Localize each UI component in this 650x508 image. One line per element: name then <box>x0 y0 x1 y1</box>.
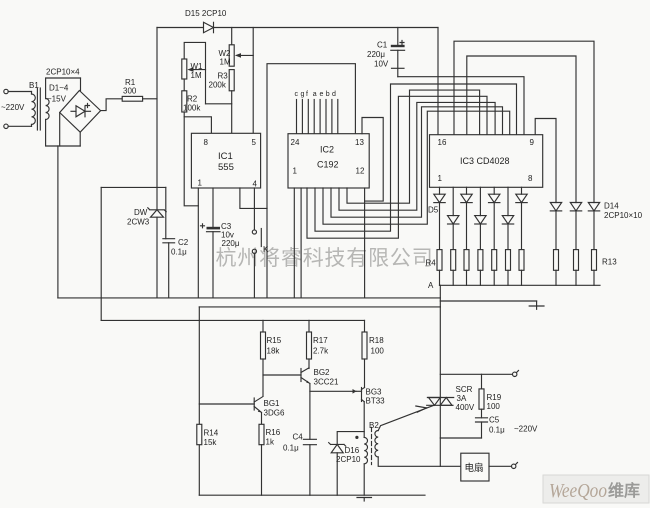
bracket wire IC3 pin9 to D12 <box>535 119 556 203</box>
weave wire 1 IC2 to IC3 <box>347 90 480 203</box>
label R2 100k <box>183 95 201 113</box>
label ~15V <box>47 95 67 104</box>
svg-text:D16: D16 <box>345 446 360 455</box>
resistor R15 <box>261 320 266 396</box>
column D12 R11 <box>550 203 561 286</box>
resistor R19 <box>479 374 484 418</box>
svg-text:555: 555 <box>218 162 234 173</box>
label R17 2.7k <box>313 336 329 356</box>
svg-text:0.1μ: 0.1μ <box>283 444 299 453</box>
svg-text:C1: C1 <box>377 41 388 50</box>
label BG2 3CC21 <box>314 368 339 387</box>
wire x267 to rail <box>266 208 268 298</box>
svg-text:220μ: 220μ <box>367 50 385 59</box>
resistor R3 <box>229 70 234 91</box>
terminal input bottom <box>4 124 8 128</box>
svg-text:D5: D5 <box>428 206 439 215</box>
svg-text:D14: D14 <box>604 202 619 211</box>
svg-text:100k: 100k <box>183 104 201 113</box>
wire IC2 pin1 down to rail <box>293 188 295 298</box>
svg-text:100: 100 <box>487 402 501 411</box>
wire R3 node down to IC1 <box>231 104 233 134</box>
svg-text:A: A <box>428 281 434 290</box>
column D10 R9 <box>502 187 513 285</box>
svg-text:1: 1 <box>438 174 443 183</box>
wire SCR top to terminal <box>440 373 512 375</box>
capacitor C4 <box>303 439 316 495</box>
label C5 0.1u <box>489 416 505 435</box>
label ~220V input <box>1 103 25 112</box>
lower box left edge <box>198 307 200 495</box>
capacitor C3 electrolytic <box>201 224 221 298</box>
svg-text:f: f <box>306 91 308 98</box>
column D9 R8 <box>489 187 500 285</box>
ground B2 <box>357 498 372 502</box>
column D7 R6 <box>461 187 472 285</box>
bracket wire IC3 to D13 <box>467 56 576 203</box>
svg-text:g: g <box>301 91 305 98</box>
svg-text:BG2: BG2 <box>314 368 331 377</box>
svg-text:8: 8 <box>528 174 533 183</box>
zener DW <box>148 208 166 217</box>
svg-text:0.1μ: 0.1μ <box>171 248 187 257</box>
wire IC1 pin1 down to rail <box>197 188 199 298</box>
svg-text:100: 100 <box>371 347 385 356</box>
wire top rail down to IC3 <box>437 28 439 135</box>
node A rail <box>440 284 601 286</box>
label 2CP10x4 <box>46 68 80 77</box>
wire main left vertical x157 <box>156 28 158 298</box>
weave wire 2 IC2 to IC3 <box>339 102 495 210</box>
wire BG2 emitter to BG3 <box>310 390 356 392</box>
svg-text:DW: DW <box>134 208 148 217</box>
svg-text:IC3 CD4028: IC3 CD4028 <box>460 156 510 166</box>
label SCR 3A 400V <box>456 385 475 412</box>
column D14 R13 <box>588 203 599 286</box>
svg-text:12: 12 <box>356 167 365 176</box>
svg-text:杭州将睿科技有限公司: 杭州将睿科技有限公司 <box>216 247 434 270</box>
resistor R18 <box>362 320 367 387</box>
label C2 0.1u <box>171 238 189 257</box>
svg-text:K: K <box>263 245 269 254</box>
svg-text:R2: R2 <box>187 95 198 104</box>
ground upper <box>529 301 544 309</box>
label C1 220u 10V <box>367 41 389 69</box>
wire IC2 right pin down to rail <box>364 188 366 298</box>
svg-text:16: 16 <box>438 138 447 147</box>
potentiometer W1 box <box>184 42 205 103</box>
svg-text:d: d <box>332 91 336 98</box>
wire A column down through SCR <box>439 307 441 466</box>
svg-text:R16: R16 <box>266 428 281 437</box>
svg-text:13: 13 <box>355 138 364 147</box>
svg-text:220μ: 220μ <box>222 239 240 248</box>
wire vertical x101 down to lower rail3 <box>100 187 102 320</box>
svg-text:4: 4 <box>253 180 258 189</box>
svg-text:a: a <box>313 91 317 98</box>
label B2 <box>369 421 379 430</box>
diode D16 <box>329 443 346 496</box>
svg-text:C5: C5 <box>489 416 500 425</box>
wire IC1 pin3 loop <box>240 188 267 208</box>
wire bridge minus down-left <box>59 113 61 147</box>
bottom rail upper section <box>58 297 440 299</box>
svg-text:8: 8 <box>204 138 209 147</box>
svg-text:200k: 200k <box>209 81 227 90</box>
switch K <box>252 229 261 298</box>
wire wrap IC1 to IC2 <box>267 64 355 209</box>
svg-text:C192: C192 <box>317 160 339 170</box>
fan box <box>461 453 489 481</box>
svg-text:2CP10×10: 2CP10×10 <box>604 211 643 220</box>
svg-text:R17: R17 <box>313 336 328 345</box>
label W1 1M <box>191 62 204 80</box>
terminal input top <box>4 89 8 93</box>
wire IC2 pin2 down to rail <box>300 188 302 298</box>
weave wire 6 IC2 to IC3 <box>307 96 487 238</box>
svg-text:R15: R15 <box>267 336 282 345</box>
resistor R17 <box>307 320 312 368</box>
wire DW branch horizontal y187 <box>101 186 166 188</box>
svg-text:10V: 10V <box>374 60 389 69</box>
svg-text:R18: R18 <box>369 336 384 345</box>
weave wire 3 IC2 to IC3 <box>331 107 503 217</box>
transformer B1 <box>32 88 50 130</box>
svg-text:WeeQoo: WeeQoo <box>549 480 607 502</box>
svg-text:3A: 3A <box>457 394 467 403</box>
watermark center <box>216 247 434 270</box>
svg-text:e: e <box>320 91 324 98</box>
svg-text:c: c <box>295 91 299 98</box>
watermark weeqoo box <box>543 475 649 503</box>
svg-text:9: 9 <box>530 138 535 147</box>
svg-text:1: 1 <box>293 167 298 176</box>
bracket wire IC3 to D14 <box>454 41 594 202</box>
svg-text:R3: R3 <box>218 72 229 81</box>
svg-text:维库: 维库 <box>608 481 640 500</box>
svg-text:1M: 1M <box>191 71 202 80</box>
svg-text:电扇: 电扇 <box>465 462 484 474</box>
wire W2 column from rail <box>231 28 233 45</box>
label R13 <box>602 258 617 267</box>
weave wire 4 IC2 to IC3 <box>323 111 510 224</box>
svg-text:R4: R4 <box>426 259 437 268</box>
wire B2 secondary to fan wire <box>378 457 461 466</box>
svg-text:0.1μ: 0.1μ <box>489 426 505 435</box>
svg-text:15k: 15k <box>204 438 218 447</box>
rail extension to ground <box>440 300 536 302</box>
svg-text:1: 1 <box>198 179 203 188</box>
column D13 R12 <box>570 203 581 286</box>
potentiometer W2 <box>229 45 253 66</box>
svg-text:2CW3: 2CW3 <box>127 218 150 227</box>
label C3 10v 220u <box>221 222 240 248</box>
svg-text:W1: W1 <box>191 62 204 71</box>
lower box top edge <box>199 306 440 308</box>
wire fan to terminal <box>489 465 512 467</box>
capacitor C1 electrolytic <box>391 28 405 77</box>
terminal 220V top <box>513 371 519 377</box>
lower power rail <box>101 319 364 321</box>
svg-text:~15V: ~15V <box>47 95 67 104</box>
label R15 18k <box>267 336 282 356</box>
label R1 300 <box>123 78 137 96</box>
wire IC1 pin2 C3 column <box>212 188 214 227</box>
label K <box>263 245 269 254</box>
resistor R14 <box>197 424 202 444</box>
potentiometer W1 <box>182 59 187 79</box>
svg-text:C4: C4 <box>293 433 304 442</box>
wire BG2 emitter column <box>309 384 311 440</box>
wire IC2 tight wrap box <box>362 118 383 202</box>
svg-text:2CP10: 2CP10 <box>336 455 361 464</box>
svg-text:2CP10×4: 2CP10×4 <box>46 68 80 77</box>
transistor BG3 BT33 <box>353 388 365 402</box>
svg-text:BG1: BG1 <box>264 399 281 408</box>
svg-text:R13: R13 <box>602 258 617 267</box>
svg-text:5: 5 <box>252 138 257 147</box>
diode D15 <box>204 22 214 32</box>
label B1 <box>29 81 39 90</box>
wire R2 bottom to IC1 pin top <box>184 112 211 133</box>
label BG3 BT33 <box>366 388 386 406</box>
IC3 CD4028 <box>430 135 543 188</box>
svg-text:2.7k: 2.7k <box>313 347 329 356</box>
svg-text:R14: R14 <box>204 429 219 438</box>
label D16 2CP10 <box>336 446 361 464</box>
label BG1 3DG6 <box>264 399 285 418</box>
label D14 2CP10x10 <box>604 202 643 221</box>
label D5 <box>428 206 439 215</box>
svg-text:24: 24 <box>291 138 300 147</box>
wire snubber bottom <box>440 437 481 439</box>
svg-text:~220V: ~220V <box>1 103 25 112</box>
svg-text:B2: B2 <box>369 421 379 430</box>
terminal 220V bottom <box>512 463 518 469</box>
svg-text:IC1: IC1 <box>218 151 233 162</box>
svg-text:SCR: SCR <box>456 385 473 394</box>
wire D16 branch <box>337 432 364 444</box>
svg-text:IC2: IC2 <box>320 145 334 155</box>
svg-text:B1: B1 <box>29 81 39 90</box>
column D5 R4 <box>434 187 445 285</box>
label R18 100 <box>369 336 384 356</box>
svg-text:3CC21: 3CC21 <box>314 378 339 387</box>
label W2 1M <box>219 49 232 67</box>
label R14 15k <box>204 429 219 448</box>
top rail <box>157 27 438 29</box>
column D11 R10 <box>516 187 527 285</box>
bridge rectifier diamond D1-4 <box>60 91 101 133</box>
wire input top <box>8 91 31 93</box>
wires 7seg pins into IC2 <box>297 100 338 134</box>
resistor R16 <box>259 413 264 496</box>
svg-text:D15 2CP10: D15 2CP10 <box>185 9 227 18</box>
svg-text:3DG6: 3DG6 <box>264 409 285 418</box>
wire rail to IC1 pin5 <box>252 28 254 134</box>
label A <box>428 281 434 290</box>
svg-text:18k: 18k <box>267 347 281 356</box>
svg-text:~220V: ~220V <box>514 425 538 434</box>
transistor BG2 <box>263 368 310 384</box>
transformer B2 <box>355 428 378 496</box>
svg-text:BG3: BG3 <box>366 388 383 397</box>
wire input bottom <box>8 125 31 127</box>
svg-text:400V: 400V <box>456 403 475 412</box>
column D6 R5 <box>448 187 459 285</box>
capacitor C2 <box>163 187 175 298</box>
label DW 2CW3 <box>127 208 150 227</box>
svg-text:1M: 1M <box>220 58 231 67</box>
svg-text:D1~4: D1~4 <box>49 84 69 93</box>
label R3 200k <box>209 72 229 90</box>
svg-text:R19: R19 <box>487 393 502 402</box>
wire BG3 down to B2 <box>363 402 365 438</box>
weave wire 5 IC2 to IC3 <box>315 84 517 231</box>
bridge rectifier box <box>46 78 81 146</box>
label R19 100 <box>487 393 502 411</box>
wire A down to rails <box>439 285 441 307</box>
wire R3 bottom to W1 box <box>206 91 232 104</box>
wire left vertical to bottom rail <box>57 146 59 298</box>
svg-text:b: b <box>326 91 330 98</box>
label ~220V lower <box>514 425 538 434</box>
labels c g f a e b d <box>295 91 337 98</box>
svg-text:300: 300 <box>123 87 137 96</box>
IC2 C192 <box>288 134 369 188</box>
label R16 1k <box>266 428 281 447</box>
svg-text:1k: 1k <box>266 438 275 447</box>
lower bottom rail <box>199 494 425 496</box>
resistor R2 <box>182 91 187 112</box>
wire B2 gate diagonal to triac <box>378 405 434 431</box>
svg-text:BT33: BT33 <box>366 397 386 406</box>
label C4 0.1u <box>283 433 303 453</box>
wire x184 down to pin1 loop <box>184 117 198 206</box>
capacitor C5 <box>476 418 488 438</box>
wire C1 bracket to IC3 <box>398 77 524 135</box>
label D15 2CP10 <box>185 9 227 18</box>
IC1 555 <box>191 133 260 188</box>
column D8 R7 <box>475 187 486 285</box>
wire W1 to R2 <box>183 79 185 91</box>
triac SCR <box>427 398 454 406</box>
wire bridge plus to R1 <box>101 99 123 111</box>
label R4 <box>426 259 437 268</box>
svg-text:C2: C2 <box>178 238 189 247</box>
resistor R1 <box>122 96 157 101</box>
transistor BG1 <box>199 397 263 413</box>
label D1~4 <box>49 84 69 93</box>
wire IC1 pin4 to switch K <box>253 188 255 230</box>
